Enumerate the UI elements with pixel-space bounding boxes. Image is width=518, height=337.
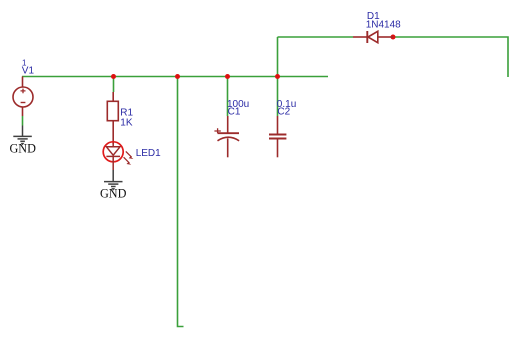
capacitor C1 (polarized) [214,116,239,157]
svg-text:GND: GND [10,142,37,156]
svg-text:LED1: LED1 [136,148,161,159]
node junction dot on bus at R1 [111,74,116,79]
ground symbol for V1 [13,126,32,142]
svg-text:C2: C2 [277,107,290,118]
wire: main horizontal bus [22,76,328,78]
wire: V1 to ground link [22,116,24,126]
node junction dot at diode cathode wire [391,35,396,40]
wire: C2 branch and riser to diode row [277,37,279,116]
node junction dot on bus at C2/diode riser [275,74,280,79]
svg-text:GND: GND [100,187,127,201]
wire: R1 branch drop [113,77,115,93]
capacitor C2 [269,116,286,157]
LED LED1 [103,142,123,162]
node junction dot on bus at C1 [225,74,230,79]
LED light arrows [124,151,134,164]
wire: C1 branch drop [227,77,229,117]
ground symbol for LED1 [104,170,123,187]
svg-text:C1: C1 [228,107,241,118]
resistor R1 [107,92,118,144]
voltage source V1 [13,77,33,117]
wire: diode row left segment [278,36,354,38]
svg-text:1N4148: 1N4148 [366,19,401,30]
wire: diode row right segment with right drop [393,37,508,77]
svg-text:V1: V1 [22,66,35,77]
wire: long vertical branch with stub [178,77,184,327]
diode D1 [353,31,393,43]
node junction dot on bus at long branch [175,74,180,79]
svg-text:1K: 1K [120,117,133,128]
